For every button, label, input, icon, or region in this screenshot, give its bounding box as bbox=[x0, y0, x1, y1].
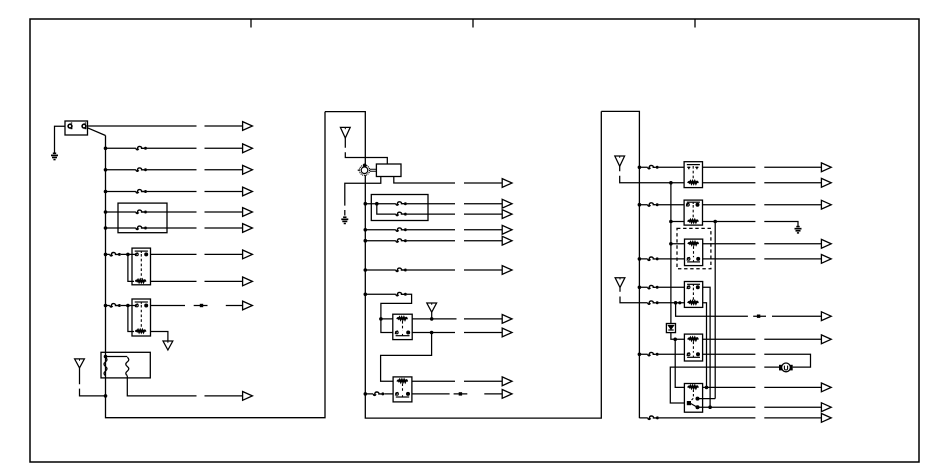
wire row r3 bbox=[639, 258, 821, 260]
wire R6 coil row to ground bbox=[671, 222, 798, 227]
wire fusebox row1 bbox=[365, 203, 502, 205]
node square feed junction bbox=[674, 301, 678, 305]
node R7 coil feed bbox=[669, 242, 673, 246]
fuse F12 bbox=[396, 268, 407, 271]
relay box dashed D1 bbox=[677, 228, 711, 268]
node fusebox split bbox=[375, 202, 379, 206]
connector arrow A2 bbox=[243, 144, 253, 153]
connector square S3 bbox=[757, 315, 760, 318]
wire T6 to R8 coil row bbox=[620, 288, 684, 303]
relay R3 bbox=[393, 314, 412, 339]
connector arrow A1 bbox=[243, 122, 253, 131]
wire R8 contact to V3 bbox=[703, 287, 710, 407]
wire T2 to bus bbox=[80, 368, 106, 396]
wire row4 bbox=[106, 191, 243, 193]
wire row c2 bbox=[365, 240, 502, 242]
wire feed drop V1 bbox=[670, 183, 672, 324]
fuse F8 bbox=[396, 202, 407, 205]
node bus row r3 bbox=[638, 257, 642, 261]
node bus row3 bbox=[104, 168, 108, 172]
wire main bus right bbox=[601, 111, 639, 418]
wire battery to ground bbox=[55, 126, 66, 146]
connector arrow B8 bbox=[502, 328, 512, 337]
connector arrow B9 bbox=[502, 377, 512, 386]
ground G2 bbox=[341, 217, 348, 223]
wire T3 to ignition switch bbox=[345, 138, 387, 164]
node bus row r5 bbox=[638, 353, 642, 357]
connector arrow C4 bbox=[821, 239, 831, 248]
node transformer top bbox=[104, 355, 108, 359]
wire motor row to R10 common bbox=[670, 367, 779, 403]
connector arrow A9 bbox=[243, 301, 253, 310]
ignition key cylinder bbox=[358, 165, 377, 175]
fuse F21 bbox=[648, 416, 659, 419]
connector triangle T2 bbox=[75, 359, 85, 368]
wire R5 coil row bbox=[671, 182, 822, 184]
relay R1 bbox=[132, 248, 151, 285]
relay R8 bbox=[684, 282, 702, 308]
wire main bus middle bbox=[325, 111, 601, 418]
connector triangle T3 bbox=[340, 127, 350, 138]
wire R9 coil out bbox=[703, 338, 822, 340]
connector arrow B3 bbox=[502, 210, 512, 219]
motor M1 bbox=[779, 363, 793, 372]
wire R1 coil feed bbox=[128, 254, 134, 281]
node bus fusebox row1 bbox=[364, 202, 368, 206]
node bus relay row2 bbox=[104, 304, 108, 308]
wire row1 from battery bbox=[88, 125, 243, 127]
wire R4 contact row bbox=[365, 393, 502, 395]
wire row c1 bbox=[365, 229, 502, 231]
wire SW1 output row bbox=[394, 177, 502, 184]
wire row5 bbox=[106, 211, 243, 213]
connector triangle T4 bbox=[427, 303, 437, 312]
node R9 coil junction bbox=[673, 338, 677, 342]
connector triangle T5 bbox=[615, 156, 625, 166]
connector arrow C7 bbox=[821, 335, 831, 344]
wire row6 bbox=[106, 227, 243, 229]
wire R3 contact out bbox=[412, 332, 502, 334]
battery B1 bbox=[65, 121, 88, 135]
node bus row c3 bbox=[364, 268, 368, 272]
node R3 coil out junction bbox=[430, 317, 434, 321]
fuse F3 bbox=[136, 190, 147, 193]
node bus row c4 bbox=[364, 293, 368, 297]
fuse F2 bbox=[136, 168, 147, 171]
wire row3 bbox=[106, 169, 243, 171]
wire to relay R2 bbox=[106, 305, 136, 307]
connector triangle T6 bbox=[615, 278, 625, 288]
node R10 coil junction bbox=[705, 386, 709, 390]
fuse box FB2 bbox=[371, 195, 428, 221]
node bus row c2 bbox=[364, 239, 368, 243]
wire branch V4 bbox=[714, 222, 716, 399]
wire V5 to R10 coil bbox=[675, 339, 684, 387]
wire row c3 bbox=[365, 269, 502, 271]
connector arrow A10 bbox=[243, 392, 253, 401]
relay R4 bbox=[393, 377, 412, 402]
node R5 coil feed junction bbox=[669, 181, 673, 185]
node bus row4 bbox=[104, 190, 108, 194]
node bus row6 bbox=[104, 226, 108, 230]
connector arrow C1 bbox=[821, 163, 831, 172]
fuse F10 bbox=[396, 228, 407, 231]
wire row c4 zigzag to relay R3 bbox=[365, 294, 411, 319]
wire R2 contact out bbox=[151, 305, 243, 307]
node bus relay row1 bbox=[104, 253, 108, 257]
relay R7 bbox=[685, 239, 703, 266]
relay R2 bbox=[132, 299, 151, 336]
wire R1 contact out bbox=[151, 253, 243, 255]
wire row r5 bbox=[639, 353, 684, 355]
connector triangle T1 bbox=[163, 341, 173, 350]
wire battery diagonal to bus bbox=[88, 128, 106, 136]
fuse F13 bbox=[396, 292, 407, 295]
node R3 feed junction bbox=[379, 317, 383, 321]
node bus row5 bbox=[104, 210, 108, 214]
wire R10 throw2 out bbox=[698, 406, 822, 408]
connector square S1 bbox=[200, 304, 203, 307]
connector square S2 bbox=[459, 392, 462, 395]
connector arrow B6 bbox=[502, 266, 512, 275]
fuse F16 bbox=[648, 203, 659, 206]
wire row r1 bbox=[639, 166, 684, 168]
wire to relay R1 bbox=[106, 253, 136, 255]
fuse F18 bbox=[648, 285, 659, 288]
relay R5 bbox=[684, 162, 702, 188]
wire R2 coil feed bbox=[128, 306, 134, 332]
node R2 feed junction bbox=[126, 304, 130, 308]
node bus row r1 bbox=[638, 166, 642, 170]
node R1 feed junction bbox=[126, 253, 130, 257]
connector arrow C5 bbox=[821, 255, 831, 264]
connector arrow A5 bbox=[243, 208, 253, 217]
wire transformer secondary out bbox=[127, 376, 242, 396]
ground G3 bbox=[795, 227, 802, 233]
connector arrow C9 bbox=[821, 403, 831, 412]
relay R9 bbox=[684, 334, 702, 361]
connector arrow C2 bbox=[821, 178, 831, 187]
node bus ignition bbox=[363, 164, 367, 168]
connector arrow A8 bbox=[243, 277, 253, 286]
connector arrow B2 bbox=[502, 199, 512, 208]
node bus row r4 bbox=[638, 286, 642, 290]
wire fusebox inner drop bbox=[377, 204, 396, 214]
wire R6 contact out bbox=[703, 204, 822, 206]
fuse F11 bbox=[396, 239, 407, 242]
wire R10 coil out bbox=[703, 386, 822, 388]
wire R7 coil row bbox=[671, 243, 822, 245]
connector arrow A6 bbox=[243, 224, 253, 233]
node bus row r2 bbox=[638, 203, 642, 207]
wire main bus left bbox=[106, 112, 326, 418]
connector arrow B10 bbox=[502, 390, 512, 399]
wire R3 coil feed bbox=[381, 319, 393, 333]
fuse F15 bbox=[648, 165, 659, 168]
node R10 throw2 junction bbox=[708, 405, 712, 409]
wire R5 contact out bbox=[703, 166, 822, 168]
wire T5 to relay coil row bbox=[620, 166, 671, 183]
fuse F19 bbox=[648, 301, 659, 304]
ignition switch SW1 bbox=[376, 164, 401, 177]
connector arrow B7 bbox=[502, 315, 512, 324]
fuse F4 bbox=[136, 210, 147, 213]
connector arrow C6 bbox=[821, 312, 831, 321]
fuse F20 bbox=[648, 352, 659, 355]
connector arrow A7 bbox=[243, 250, 253, 259]
node bus row2 bbox=[104, 147, 108, 151]
wire row r4 bbox=[639, 286, 684, 288]
wire R2 coil to connector bbox=[151, 332, 168, 342]
wire bottom row bbox=[639, 417, 821, 419]
wire row2 bbox=[106, 147, 243, 149]
connector arrow A4 bbox=[243, 187, 253, 196]
fuse F9 bbox=[396, 212, 407, 215]
wire R4 coil out bbox=[412, 380, 502, 382]
wire R3 coil out bbox=[412, 318, 502, 320]
node bus R4 row bbox=[364, 392, 368, 396]
relay R10 changeover bbox=[684, 384, 702, 413]
fuse F6 bbox=[110, 252, 121, 255]
fuse F7 bbox=[110, 304, 121, 307]
connector arrow B5 bbox=[502, 236, 512, 245]
connector arrow A3 bbox=[243, 165, 253, 174]
node R3 contact junction bbox=[430, 331, 434, 335]
fuse F5 bbox=[136, 226, 147, 229]
wire R1 coil out bbox=[151, 280, 243, 282]
wire R3 contact to R4 coil bbox=[381, 333, 432, 382]
connector arrow B4 bbox=[502, 225, 512, 234]
fuse F1 bbox=[136, 146, 147, 149]
wire R8 coil out to V2 bbox=[703, 303, 707, 388]
wire R10 throw1 to V4 bbox=[698, 398, 716, 400]
connector arrow C8 bbox=[821, 383, 831, 392]
wire row square marker bbox=[676, 303, 822, 316]
node T2 bus junction bbox=[104, 394, 108, 398]
ground G1 bbox=[51, 146, 58, 160]
relay R6 bbox=[684, 200, 702, 225]
node ground row branch bbox=[713, 220, 717, 224]
transformer X1 bbox=[101, 352, 150, 378]
fuse box FB1 bbox=[118, 203, 167, 233]
fuse F17 bbox=[648, 257, 659, 260]
wire SW1 to ground leg bbox=[345, 177, 381, 216]
fuse F14 bbox=[373, 392, 384, 395]
connector arrow C10 bbox=[821, 414, 831, 423]
node bus row c1 bbox=[364, 228, 368, 232]
wire fusebox row2 bbox=[407, 213, 502, 215]
node R6 coil feed bbox=[669, 220, 673, 224]
diode block DB1 bbox=[666, 324, 675, 333]
wire diode to R9 coil bbox=[671, 333, 685, 340]
connector arrow C3 bbox=[821, 200, 831, 209]
connector arrow B1 bbox=[502, 179, 512, 188]
wire R9 contact to motor bbox=[703, 354, 811, 367]
wire row r2 bbox=[639, 204, 684, 206]
wire T4 stem bbox=[431, 312, 433, 319]
